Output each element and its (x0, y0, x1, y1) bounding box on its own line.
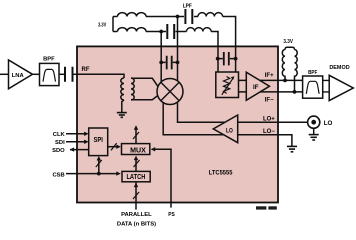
svg-text:MUX: MUX (130, 147, 146, 154)
svg-text:3.3V: 3.3V (98, 22, 106, 28)
svg-text:PARALLEL: PARALLEL (121, 212, 152, 218)
svg-text:SDO: SDO (52, 148, 65, 154)
svg-text:LO+: LO+ (263, 116, 275, 122)
svg-text:IF−: IF− (265, 97, 274, 103)
svg-text:LO: LO (324, 120, 333, 127)
svg-text:BPF: BPF (308, 70, 318, 76)
svg-text:IF+: IF+ (265, 73, 274, 79)
svg-text:LPF: LPF (183, 3, 193, 9)
svg-text:SDI: SDI (55, 140, 65, 146)
svg-text:LATCH: LATCH (126, 174, 145, 181)
svg-text:DATA (n BITS): DATA (n BITS) (117, 221, 156, 227)
svg-text:LO−: LO− (263, 129, 275, 135)
svg-text:LTC5555: LTC5555 (209, 170, 233, 177)
svg-text:SPI: SPI (94, 137, 103, 144)
svg-text:DEMOD: DEMOD (329, 65, 349, 71)
svg-text:PS: PS (168, 212, 175, 218)
svg-text:CSB: CSB (52, 172, 64, 178)
svg-text:LNA: LNA (12, 73, 25, 79)
svg-text:CLK: CLK (53, 132, 66, 138)
svg-text:IF: IF (253, 84, 259, 91)
svg-text:LO: LO (226, 127, 233, 134)
svg-text:3.3V: 3.3V (283, 39, 293, 45)
svg-text:BPF: BPF (43, 57, 55, 63)
svg-text:RF: RF (82, 67, 90, 73)
